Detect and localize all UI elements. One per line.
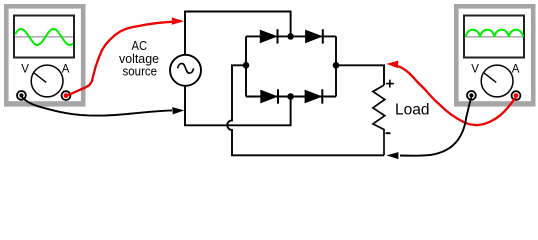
label AC voltage source: [119, 38, 159, 79]
svg-text:A: A: [512, 64, 520, 76]
diode D1 (top-left): [260, 29, 277, 43]
diode D4 (bottom-right): [305, 89, 322, 103]
multimeter M2 oscilloscope screen: [464, 16, 524, 58]
node: bridge bottom junction: [287, 93, 294, 100]
black test lead from M1 to AC source bottom: [22, 97, 172, 116]
wire: bridge right side: [335, 36, 337, 96]
diode D2 (top-right): [306, 29, 323, 43]
wire: top rail from AC source to bridge top: [185, 12, 291, 55]
resistor load zigzag: [373, 85, 385, 155]
multimeter M2 dial: [481, 65, 513, 97]
black probe arrow at AC bottom: [172, 107, 184, 114]
multimeter M1 body (left): [4, 4, 86, 107]
label plus: [386, 80, 394, 88]
wire: bridge bottom side: [246, 96, 336, 98]
AC source V1 sine symbol: [178, 63, 194, 73]
red test lead from M2 to load top: [398, 66, 517, 125]
black test lead from M2 to load bottom: [400, 98, 471, 156]
multimeter M1 dial: [31, 65, 63, 97]
svg-text:A: A: [62, 64, 70, 76]
AC source V1 circle: [170, 55, 201, 86]
multimeter M1 needle: [33, 72, 46, 82]
svg-text:Load: Load: [395, 102, 429, 119]
red test lead from M1 to AC source top: [68, 22, 175, 96]
svg-text:V: V: [471, 64, 479, 76]
multimeter M2 screen baseline: [465, 36, 523, 38]
wire: bridge left node down to bottom return (with hop): [227, 65, 384, 155]
wire: bridge top side: [246, 35, 336, 37]
node: bridge top junction: [287, 33, 294, 40]
multimeter M2 needle: [483, 72, 496, 82]
red probe arrow at load top: [387, 61, 399, 69]
multimeter M1 oscilloscope screen: [14, 16, 74, 58]
multimeter M2 body (right): [454, 4, 536, 107]
multimeter M2 red terminal: [512, 91, 521, 100]
multimeter M1 black terminal: [17, 91, 26, 100]
multimeter M2 black terminal: [467, 91, 476, 100]
multimeter M1 sine waveform: [15, 29, 73, 45]
red probe arrow at AC top: [172, 17, 184, 24]
node: bridge right junction: [333, 62, 340, 69]
wire: bridge left side: [245, 36, 247, 96]
multimeter M1 screen baseline: [15, 36, 73, 38]
wire: bridge right node to load: [336, 65, 384, 85]
multimeter M1 red terminal: [62, 91, 71, 100]
node: bridge left junction: [243, 62, 250, 69]
wire: AC source bottom to lower rail: [185, 86, 291, 125]
label minus: [386, 132, 391, 134]
svg-text:V: V: [21, 64, 29, 76]
diode D3 (bottom-left): [261, 89, 278, 103]
svg-text:source: source: [123, 64, 158, 79]
black probe arrow at load bottom: [386, 152, 398, 159]
multimeter M2 rectified waveform: [466, 30, 524, 37]
